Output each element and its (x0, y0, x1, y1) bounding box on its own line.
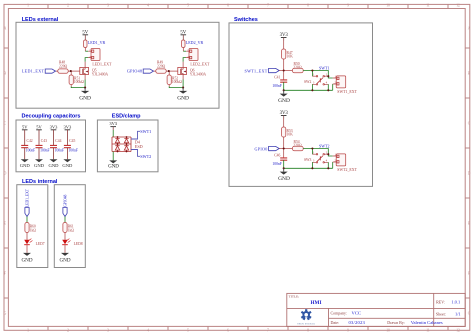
svg-text:Sheet:: Sheet: (436, 312, 446, 317)
svg-text:LED8: LED8 (74, 242, 83, 246)
svg-text:Decoupling capacitors: Decoupling capacitors (22, 113, 81, 119)
svg-text:3: 3 (107, 4, 109, 8)
svg-text:Date:: Date: (331, 320, 340, 325)
svg-text:5: 5 (187, 4, 189, 8)
svg-text:GND: GND (59, 257, 70, 263)
svg-text:220Ω: 220Ω (293, 65, 302, 69)
svg-text:SW3: SW3 (304, 158, 312, 162)
svg-text:8: 8 (307, 4, 309, 8)
svg-text:A: A (468, 27, 471, 31)
svg-text:3V3: 3V3 (280, 33, 289, 38)
svg-text:G: G (4, 312, 7, 316)
svg-text:C45: C45 (69, 139, 75, 143)
svg-text:C46: C46 (274, 153, 280, 157)
svg-text:LED1_VR: LED1_VR (88, 40, 106, 45)
svg-text:1kΩ: 1kΩ (68, 228, 75, 232)
svg-text:YJL3400A: YJL3400A (190, 73, 207, 77)
svg-text:SWT1_EXT: SWT1_EXT (245, 69, 268, 74)
svg-text:GND: GND (278, 176, 290, 182)
svg-text:GND: GND (49, 163, 60, 168)
svg-text:1/1: 1/1 (455, 312, 461, 317)
svg-text:100nF: 100nF (272, 162, 281, 166)
svg-text:G: G (468, 312, 471, 316)
svg-text:GPIO48: GPIO48 (127, 69, 142, 74)
svg-text:5V: 5V (180, 30, 186, 35)
svg-text:Drawn By:: Drawn By: (387, 320, 405, 325)
svg-text:12: 12 (456, 329, 460, 333)
svg-text:100nF: 100nF (26, 148, 35, 152)
svg-text:4: 4 (147, 4, 149, 8)
svg-text:TITLE:: TITLE: (289, 294, 300, 298)
svg-text:GND: GND (34, 163, 45, 168)
svg-text:LEDs internal: LEDs internal (22, 179, 58, 185)
svg-text:GND: GND (62, 163, 73, 168)
svg-text:220Ω: 220Ω (157, 64, 166, 68)
svg-text:3V3: 3V3 (109, 121, 117, 126)
svg-text:SW2: SW2 (304, 80, 312, 84)
svg-text:C43: C43 (41, 139, 47, 143)
svg-text:8: 8 (307, 329, 309, 333)
svg-text:F: F (468, 272, 470, 276)
svg-text:1.0.1: 1.0.1 (451, 300, 460, 305)
svg-text:220Ω: 220Ω (59, 64, 68, 68)
svg-text:SWT1_EXT: SWT1_EXT (337, 90, 357, 94)
svg-text:5V: 5V (36, 124, 42, 129)
svg-text:1kΩ: 1kΩ (30, 228, 37, 232)
svg-text:Company:: Company: (331, 311, 348, 316)
svg-text:9: 9 (347, 4, 349, 8)
svg-text:SWT1: SWT1 (319, 65, 329, 70)
svg-text:REV:: REV: (436, 300, 445, 305)
svg-text:11: 11 (426, 4, 430, 8)
svg-text:LED1_EXT: LED1_EXT (26, 188, 30, 207)
svg-text:1: 1 (27, 4, 29, 8)
svg-text:GND: GND (108, 164, 119, 169)
svg-text:220Ω: 220Ω (293, 143, 302, 147)
svg-text:5V: 5V (22, 124, 28, 129)
svg-text:3V3: 3V3 (280, 111, 289, 116)
svg-text:6: 6 (227, 4, 229, 8)
svg-text:LED1_EXT: LED1_EXT (22, 69, 45, 74)
svg-text:SWT2: SWT2 (319, 143, 329, 148)
svg-text:100nF: 100nF (40, 148, 49, 152)
svg-text:OPEN SOURCE: OPEN SOURCE (297, 323, 315, 325)
svg-text:SWT1: SWT1 (140, 129, 151, 134)
svg-text:5V: 5V (82, 30, 88, 35)
svg-text:LED7: LED7 (36, 242, 45, 246)
svg-text:7: 7 (267, 329, 269, 333)
svg-text:12: 12 (456, 4, 460, 8)
svg-text:GND: GND (20, 163, 31, 168)
svg-text:10: 10 (386, 329, 390, 333)
svg-text:100nF: 100nF (69, 148, 78, 152)
svg-text:100kΩ: 100kΩ (172, 80, 182, 84)
svg-text:1: 1 (27, 329, 29, 333)
svg-text:GND: GND (79, 95, 91, 101)
svg-text:10K: 10K (287, 55, 294, 59)
svg-text:GPIO48: GPIO48 (64, 195, 68, 207)
svg-text:2: 2 (67, 4, 69, 8)
svg-text:GND: GND (278, 98, 290, 104)
svg-text:LED1_EXT: LED1_EXT (92, 63, 112, 67)
svg-text:3: 3 (107, 329, 109, 333)
svg-text:5: 5 (187, 329, 189, 333)
svg-text:10: 10 (386, 4, 390, 8)
svg-text:10K: 10K (287, 133, 294, 137)
svg-text:GND: GND (21, 257, 32, 263)
svg-text:4: 4 (147, 329, 149, 333)
svg-text:ESD: ESD (135, 144, 143, 149)
svg-text:LED2_EXT: LED2_EXT (190, 63, 210, 67)
svg-text:VCC: VCC (352, 311, 361, 316)
svg-text:2: 2 (67, 329, 69, 333)
svg-text:A: A (4, 27, 7, 31)
svg-text:3V3: 3V3 (64, 124, 72, 129)
svg-text:C44: C44 (55, 139, 61, 143)
svg-text:11: 11 (426, 329, 430, 333)
svg-text:HMI: HMI (311, 300, 322, 306)
svg-text:3V3: 3V3 (50, 124, 58, 129)
svg-text:SWT2_EXT: SWT2_EXT (337, 168, 357, 172)
svg-text:100kΩ: 100kΩ (74, 80, 84, 84)
svg-text:C41: C41 (274, 75, 280, 79)
svg-text:D: D (468, 172, 471, 176)
svg-text:D: D (4, 172, 7, 176)
svg-text:LED2_VR: LED2_VR (186, 40, 204, 45)
svg-text:6: 6 (227, 329, 229, 333)
svg-text:SWT2: SWT2 (140, 154, 151, 159)
svg-text:F: F (4, 272, 6, 276)
svg-text:Valentin Cabanes: Valentin Cabanes (411, 320, 443, 325)
svg-text:100nF: 100nF (272, 84, 281, 88)
svg-text:100nF: 100nF (55, 148, 64, 152)
svg-text:03/2023: 03/2023 (349, 320, 366, 325)
svg-text:Switches: Switches (234, 17, 258, 23)
svg-text:7: 7 (267, 4, 269, 8)
svg-text:YJL3400A: YJL3400A (92, 73, 109, 77)
svg-text:C42: C42 (27, 139, 33, 143)
svg-text:GPIO0: GPIO0 (254, 147, 267, 152)
svg-text:9: 9 (347, 329, 349, 333)
svg-text:GND: GND (177, 95, 189, 101)
svg-text:ESD/clamp: ESD/clamp (112, 113, 141, 119)
